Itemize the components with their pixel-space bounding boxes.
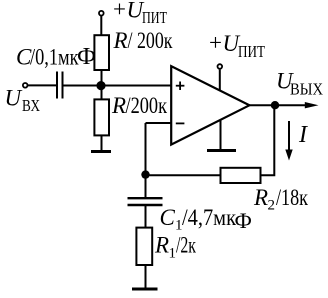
svg-text:/4,7мк: /4,7мк [182, 205, 237, 230]
svg-text:ПИТ: ПИТ [142, 8, 167, 27]
svg-text:Ф: Ф [77, 44, 96, 70]
svg-text:R: R [111, 93, 126, 118]
svg-text:C: C [160, 205, 176, 230]
svg-text:ПИТ: ПИТ [238, 42, 265, 61]
svg-text:R: R [253, 185, 268, 210]
svg-text:+: + [113, 0, 126, 22]
svg-text:1: 1 [169, 246, 177, 262]
svg-text:R: R [113, 28, 128, 53]
svg-text:/18к: /18к [276, 185, 309, 210]
svg-text:+: + [209, 30, 222, 55]
svg-text:2: 2 [268, 198, 276, 214]
svg-text:ВХ: ВХ [22, 96, 40, 115]
svg-text:/ 200к: / 200к [128, 28, 174, 53]
svg-text:/2к: /2к [176, 233, 197, 258]
svg-text:/200к: /200к [126, 93, 168, 118]
svg-text:Ф: Ф [235, 208, 252, 233]
svg-text:/0,1мк: /0,1мк [30, 45, 79, 70]
svg-text:ВЫХ: ВЫХ [290, 80, 323, 99]
svg-text:1: 1 [175, 218, 183, 234]
svg-text:R: R [154, 233, 169, 258]
svg-text:U: U [5, 86, 23, 111]
svg-text:I: I [298, 122, 308, 148]
